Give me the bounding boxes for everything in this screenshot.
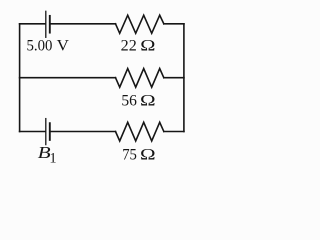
wire R3 to bottom-right corner — [164, 131, 184, 133]
wire left rail — [19, 24, 21, 132]
label 75 ohm — [122, 146, 155, 163]
wire top-left segment — [20, 23, 46, 25]
battery B1 — [46, 119, 50, 145]
wire right rail — [183, 24, 185, 132]
svg-text:22: 22 — [121, 37, 137, 54]
resistor R3 75 ohm — [116, 122, 164, 141]
svg-text:Ω: Ω — [140, 146, 156, 163]
label 22 ohm — [121, 37, 156, 54]
svg-text:Ω: Ω — [140, 92, 156, 109]
wire bottom-left segment — [20, 131, 46, 133]
svg-text:5.00: 5.00 — [27, 37, 53, 54]
wire battery to R1 — [51, 23, 116, 25]
svg-text:Ω: Ω — [140, 37, 155, 54]
label B1 — [38, 143, 57, 167]
resistor R2 56 ohm — [116, 69, 164, 88]
resistor R1 22 ohm — [116, 15, 164, 33]
wire battery B1 to R3 — [51, 131, 116, 133]
svg-text:V: V — [57, 37, 69, 54]
battery B2 (5.00 V) — [46, 11, 50, 37]
wire middle-left segment — [20, 77, 116, 79]
wire R2 to right rail — [164, 77, 184, 79]
label 5.00 V — [27, 37, 70, 54]
svg-text:75: 75 — [122, 146, 137, 163]
svg-text:1: 1 — [49, 151, 56, 167]
label 56 ohm — [121, 92, 155, 109]
svg-text:56: 56 — [121, 92, 137, 109]
wire R1 to top-right corner — [164, 23, 184, 25]
